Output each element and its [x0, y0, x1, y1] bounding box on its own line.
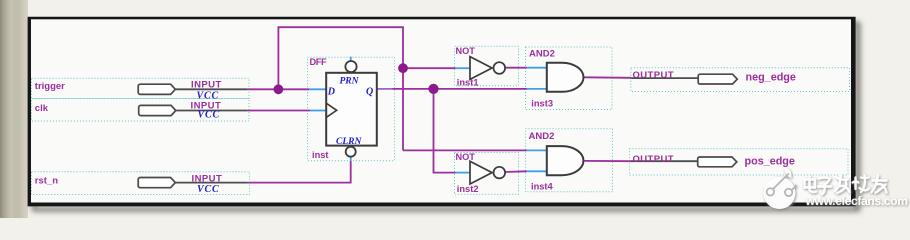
svg-text:VCC: VCC [198, 110, 220, 121]
svg-text:OUTPUT: OUTPUT [633, 154, 674, 165]
selection box NOT inst2 [455, 153, 519, 195]
NOT gate inst2 triangle [470, 161, 492, 184]
selection box AND2 inst3 [526, 47, 613, 110]
svg-text:NOT: NOT [456, 46, 476, 56]
junction node on trigger wire [274, 84, 284, 94]
svg-text:AND2: AND2 [529, 48, 555, 59]
svg-text:inst2: inst2 [457, 184, 479, 194]
NOT inst2 bubble [494, 167, 506, 179]
wire clk cyan segment to clock pin [310, 110, 326, 112]
svg-text:NOT: NOT [456, 152, 476, 162]
wire rst_n magenta segment [248, 161, 351, 183]
wire Q violet stub [377, 88, 393, 90]
AND2 gate inst3 body [547, 63, 584, 92]
junction node on Q wire [428, 84, 438, 94]
wire clk gray segment [176, 110, 248, 112]
svg-text:INPUT: INPUT [191, 80, 222, 91]
wire AND4 upper input cyan segment [527, 149, 547, 151]
wire CLRN cyan stub [350, 157, 352, 161]
svg-text:inst: inst [312, 150, 329, 160]
wire rst_n gray segment [175, 182, 248, 184]
wire AND4 output magenta [585, 160, 632, 162]
svg-text:inst1: inst1 [457, 78, 479, 88]
wire NOT1 output [505, 67, 526, 69]
svg-text:CLRN: CLRN [336, 137, 362, 147]
selection box input rst_n [32, 172, 250, 195]
wire clk magenta segment [248, 110, 310, 112]
svg-text:D: D [327, 87, 335, 98]
wire AND3 output gray to pin [631, 77, 698, 79]
DFF PRN bubble [345, 61, 356, 72]
selection box NOT inst1 [455, 46, 519, 86]
svg-text:www.elecfans.com: www.elecfans.com [805, 194, 908, 208]
selection box input clk [32, 99, 250, 122]
wire trigger feedback top route [278, 27, 403, 150]
input pin trigger [138, 84, 175, 94]
svg-text:Q: Q [366, 87, 373, 98]
left beige strip [0, 0, 28, 218]
watermark logo icon [763, 168, 796, 210]
junction node NOT1 branch [398, 63, 408, 73]
svg-text:inst4: inst4 [531, 181, 554, 191]
wire Q to AND3 lower input [393, 88, 527, 90]
svg-text:AND2: AND2 [529, 131, 555, 142]
svg-text:PRN: PRN [340, 77, 360, 87]
DFF clock wedge [326, 103, 337, 117]
wire NOT1 output cyan into AND3 [527, 67, 547, 69]
input pin rst_n [138, 178, 175, 188]
wire AND3 lower input cyan segment [527, 88, 547, 90]
svg-text:rst_n: rst_n [35, 176, 58, 187]
watermark chinese text 电子发烧友 [805, 176, 887, 195]
screenshot frame with shadow [28, 17, 856, 207]
wire AND4 output gray to pin [631, 160, 698, 162]
svg-text:inst3: inst3 [531, 98, 553, 108]
svg-text:DFF: DFF [310, 57, 327, 67]
wire trigger magenta segment [248, 88, 309, 90]
svg-text:OUTPUT: OUTPUT [633, 70, 674, 81]
wire NOT2 output cyan into AND4 [527, 170, 547, 172]
output pin neg_edge [698, 74, 737, 84]
output pin pos_edge [698, 157, 737, 167]
selection box output neg_edge [631, 68, 850, 92]
schematic white canvas [31, 19, 851, 202]
wire NOT2 input cyan segment [456, 172, 470, 174]
DFF CLRN bubble [346, 147, 356, 157]
svg-text:neg_edge: neg_edge [746, 71, 796, 83]
svg-text:trigger: trigger [35, 81, 65, 92]
wire branch to NOT1 input [403, 67, 456, 69]
wire trigger cyan segment to D [309, 88, 326, 90]
wire NOT1 input cyan segment [456, 67, 470, 69]
wire to AND4 upper input [403, 149, 527, 151]
DFF body [326, 73, 377, 146]
selection box DFF [308, 57, 395, 161]
wire Q down to NOT2 [434, 89, 456, 173]
svg-text:pos_edge: pos_edge [745, 155, 795, 167]
selection box output pos_edge [630, 149, 849, 175]
svg-text:clk: clk [35, 103, 49, 114]
NOT inst1 bubble [494, 62, 506, 74]
input pin clk [139, 105, 176, 115]
svg-text:VCC: VCC [197, 184, 219, 195]
selection box input trigger [32, 78, 250, 98]
wire trigger gray segment [175, 88, 248, 90]
wire PRN cyan stub [350, 57, 352, 61]
AND2 gate inst4 body [547, 146, 584, 175]
NOT gate U inst1 triangle [470, 57, 492, 80]
wire AND3 output magenta [584, 76, 632, 79]
wire NOT2 output [505, 170, 526, 173]
selection box AND2 inst4 [526, 129, 613, 192]
